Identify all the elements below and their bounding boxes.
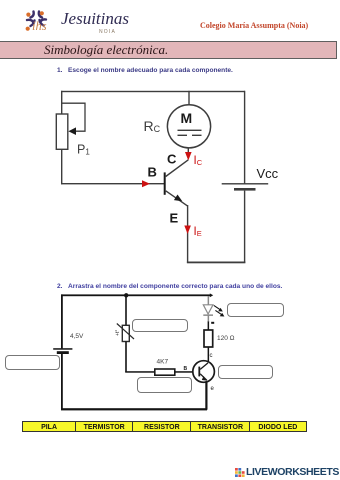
transistor Q2 bbox=[193, 361, 215, 383]
transistor Q1 bbox=[164, 172, 166, 194]
wire resistor120 to led bbox=[208, 321, 210, 330]
battery 4,5V bbox=[53, 348, 72, 350]
answer box pila bbox=[5, 355, 60, 370]
wire base horizontal bbox=[61, 183, 164, 184]
thermistor diagonal bbox=[117, 324, 134, 340]
wire top rail 2 bbox=[61, 294, 210, 296]
school logo icon bbox=[24, 7, 51, 33]
resistor 4K7 body bbox=[155, 369, 175, 375]
wire below potentiometer bbox=[61, 149, 62, 184]
wire bottom rail bbox=[187, 262, 246, 264]
college name bbox=[200, 21, 340, 30]
svg-text:4,5V: 4,5V bbox=[70, 333, 84, 340]
led D1 bbox=[208, 296, 210, 305]
resistor 120 body bbox=[204, 330, 213, 347]
motor M bbox=[167, 105, 210, 148]
red collector current arrow bbox=[185, 152, 192, 161]
potentiometer P1 body bbox=[56, 114, 68, 149]
answer box resistor bbox=[137, 377, 192, 393]
battery Vcc bbox=[222, 183, 269, 184]
answer box diodo bbox=[227, 303, 284, 318]
wire resistor to base bbox=[175, 371, 193, 373]
wire collector to resistor120 bbox=[208, 347, 210, 362]
answer box transistor bbox=[218, 365, 273, 379]
potentiometer wiper arrow bbox=[68, 127, 76, 135]
wire motor drop bbox=[188, 91, 189, 105]
wire battery top bbox=[61, 294, 63, 348]
school name script bbox=[61, 9, 136, 35]
svg-text:+t°: +t° bbox=[115, 330, 121, 336]
wire emitter down bbox=[205, 381, 207, 410]
wire bottom rail 2 bbox=[61, 408, 207, 410]
answer box termistor bbox=[132, 319, 188, 332]
wire wiper loop bbox=[62, 103, 85, 131]
svg-text:c: c bbox=[210, 353, 213, 359]
wire to resistor 4K7 bbox=[125, 371, 155, 373]
wire left vertical to potentiometer bbox=[61, 91, 62, 115]
led emission arrows bbox=[214, 305, 225, 316]
wire thermistor bottom bbox=[125, 342, 127, 373]
svg-text:B: B bbox=[184, 366, 188, 372]
wire top rail bbox=[61, 91, 245, 92]
small tick mark bbox=[211, 322, 214, 324]
svg-text:4K7: 4K7 bbox=[157, 359, 169, 366]
thermistor body bbox=[122, 325, 129, 341]
wire thermistor top bbox=[125, 295, 127, 325]
top rail end arrow bbox=[210, 293, 213, 297]
wire battery bottom bbox=[61, 354, 63, 410]
wire collector vertical bbox=[188, 148, 189, 154]
red emitter current arrow bbox=[184, 226, 191, 235]
wire emitter vertical bbox=[187, 205, 188, 263]
svg-text:e: e bbox=[211, 386, 215, 392]
red base current arrow bbox=[142, 180, 150, 187]
svg-text:120 Ω: 120 Ω bbox=[217, 335, 235, 342]
wire right vertical lower bbox=[244, 191, 245, 263]
wire right vertical upper bbox=[244, 91, 245, 184]
node junction dot bbox=[124, 293, 128, 297]
